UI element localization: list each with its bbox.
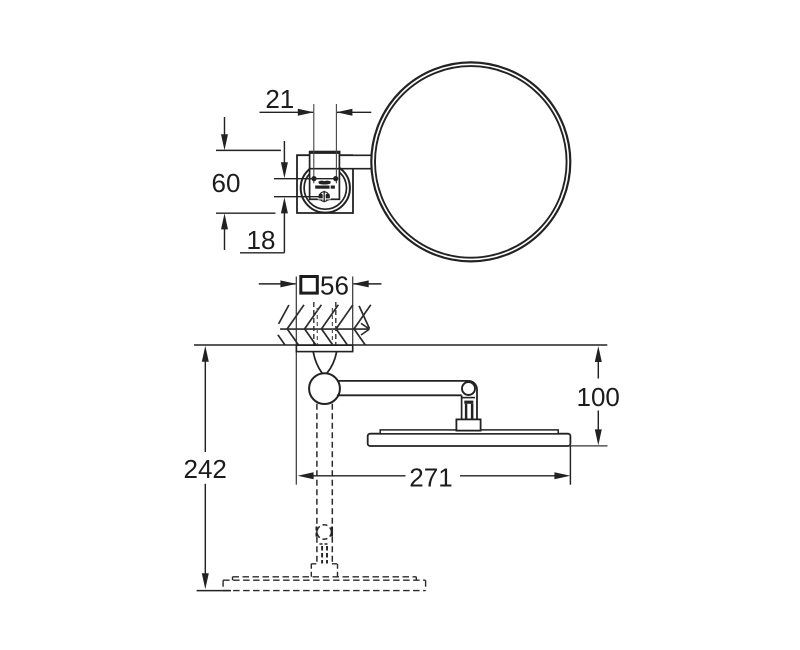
dim 271 arrow left-pointing [298,472,314,479]
screw symbol circle [319,192,329,202]
folded pin dashed [317,525,331,539]
dim 271 line right [460,475,556,477]
svg-text:60: 60 [212,168,241,198]
dim 56 arrow left-pointing [353,280,369,287]
folded clevis legs dashed [321,546,323,564]
rosette ring outer [301,163,350,212]
wall line [194,344,607,346]
trumpet stem left curve [313,352,322,374]
dim 60 top reference line [216,149,281,151]
screw symbol wing left [319,194,323,201]
screw symbol wing right [326,194,330,201]
cartridge body [310,152,340,199]
folded separation dash [320,543,330,545]
mirror head circle inner [375,66,567,258]
mirror disc top lip [380,430,558,434]
arm bottom edge [309,168,372,170]
top cap bar [309,151,341,154]
folded position: dashed column right [331,404,333,564]
dim 56 line right [354,283,382,285]
dim 100 arrow down [595,429,602,445]
extension line left (21) [313,104,315,183]
dim 242 arrow up [202,346,209,362]
square glyph [301,277,318,294]
joint separation line [462,397,475,399]
dim 56 line left [259,283,296,285]
folded disc slab dashed [223,580,426,590]
pedestal [456,419,480,430]
arm bottom edge (lower view) [337,394,462,396]
svg-text:56: 56 [320,270,349,300]
screw left [311,176,316,181]
extension line right of plate [352,277,354,352]
dim 242 line upper [204,360,206,452]
clevis dark band [464,401,473,404]
dim 242 arrow down [202,573,209,589]
leader line screws [274,178,336,180]
dim 60 lower arrow [224,229,226,251]
svg-text:100: 100 [577,382,620,412]
elbow pin [462,382,475,395]
wall hatch [278,305,371,345]
svg-text:18: 18 [247,225,276,255]
logo blob [318,181,331,185]
clevis right leg [471,404,474,419]
dim 100 line upper [597,361,599,379]
elbow clevis left edge [461,395,463,419]
mirror disc slab [368,434,571,446]
screw symbol vertical [323,191,325,203]
dim 21 line left [260,111,314,113]
svg-text:21: 21 [265,84,294,114]
svg-text:271: 271 [409,462,452,492]
extension line left of plate [295,277,297,485]
dim 21 arrow left-pointing [336,109,352,116]
micro text marks [315,186,329,189]
dim 60 bottom reference line [216,212,276,214]
folded disc lip dashed [233,577,417,580]
wall plate slab (top view) [296,345,352,351]
arm top edge (lower view) [338,380,468,382]
leader line screw symbol [274,196,319,198]
dim 271 extension right [569,446,571,485]
trumpet stem right curve [327,352,337,374]
screw right [333,176,338,181]
dim 18 tail line [240,252,284,254]
dim 100 line lower [597,411,599,431]
screw symbol wing notch [318,198,331,200]
dim 21 line right [337,111,371,113]
dim 100 extension line bottom [569,445,608,447]
rosette ring inner [304,167,346,209]
dim 271 arrow right-pointing [554,472,570,479]
wall hatch mid line with arrow [280,328,369,330]
dim 60 upper arrow [224,117,226,135]
dim 242 line lower [204,484,206,574]
hidden anchor dashes in wall [313,302,315,345]
folded pedestal dashed [311,564,337,577]
folded position: dashed column left [316,404,318,564]
dim 18 lower arrow [283,213,285,253]
dim 100 arrow up [595,346,602,362]
bottom extension line [197,590,231,592]
svg-text:242: 242 [184,454,227,484]
dim 271 line left [313,475,406,477]
arm top edge [353,154,371,156]
mirror head circle outer [371,62,570,261]
wall plate square [297,155,353,213]
dim 18 upper arrow [283,141,285,163]
clevis left leg [465,404,467,419]
folded cap side marks [316,527,318,537]
dim 21 arrow right-pointing [298,109,314,116]
ball joint [309,373,340,404]
dim 56 arrow right-pointing [280,280,296,287]
extension line right (21) [335,104,337,183]
elbow outer cap [468,381,477,420]
